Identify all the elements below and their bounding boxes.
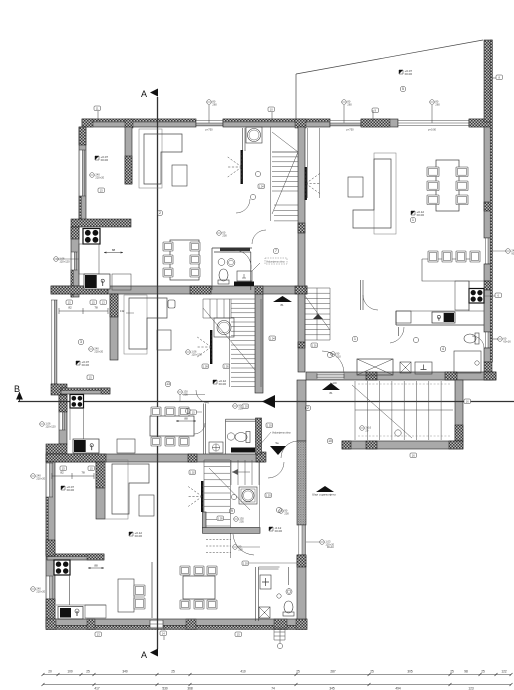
bar stools unit D [428,251,438,262]
marker bottom 3 [235,632,242,637]
stair unit D treads [305,288,330,340]
chairs dining A left [163,242,173,251]
svg-text:98: 98 [464,670,468,674]
thin wall unit D hall [361,280,364,310]
dim arrow 88 unit C [88,567,104,569]
door arc bath A [235,250,251,269]
external stair diagonal [352,385,412,438]
door arc garsonjera hall [281,441,298,458]
toilet unit D [475,333,479,344]
dim arrow 88 unit B [176,420,196,422]
svg-text:81: 81 [329,391,333,395]
toilet unit A [218,280,229,284]
stair unit A treads [272,152,298,186]
wall stair B enclosure [255,294,263,393]
svg-text:1: 1 [354,337,356,341]
svg-text:±0.00: ±0.00 [219,382,227,386]
marker top wall 6 circle [430,100,435,105]
entrance arrow garsonjera [316,486,334,492]
window left unit C lower [46,576,53,599]
svg-text:25: 25 [370,670,374,674]
coffee table unit C [139,495,154,516]
section arrow A bottom [150,649,158,657]
dim ticks bedroom B [59,308,108,314]
room number 4 [440,346,446,352]
svg-text:120+120: 120+120 [45,424,56,428]
svg-text:±0.00: ±0.00 [405,72,413,76]
sink circles unit A [218,259,225,266]
coffee table unit B [157,330,171,350]
door arc unit D bath2 [472,336,484,348]
interior label 1.09 unit B [202,364,209,369]
external stair mid landing line [355,381,453,410]
window marker unit A living [90,173,95,178]
marker window B left [40,422,45,427]
interior label unit C hall [265,493,272,498]
marker window A left [54,257,59,262]
svg-text:220+20: 220+20 [36,589,45,593]
svg-text:p+750: p+750 [346,128,354,132]
wall right exterior bottom corner [484,348,492,362]
svg-text:Vodomjerno okno: Vodomjerno okno [266,261,285,264]
wall left unit C bottom [46,599,55,628]
svg-text:88: 88 [184,417,188,421]
wall kitchen B left [59,395,67,444]
svg-text:3: 3 [80,340,82,344]
desk unit C [118,579,134,612]
counter unit B [70,408,83,440]
svg-text:74: 74 [271,687,275,690]
boiler circle unit B [214,318,234,337]
wall interior unit C [96,462,105,519]
svg-text:1: 1 [412,218,414,222]
svg-text:10: 10 [328,439,332,443]
svg-text:1.05: 1.05 [218,517,224,521]
window kitchen A [71,252,78,270]
svg-text:±0.00: ±0.00 [135,534,143,538]
svg-text:25: 25 [86,670,90,674]
svg-text:132: 132 [120,309,125,313]
window top wall right (p+0.00) [398,120,469,127]
boiler circle unit A [246,127,262,143]
room number 2 [157,210,163,216]
wall bottom hatch segs [186,619,196,630]
wall kitchen B top [61,388,110,394]
marker exit door bottom [277,643,282,648]
svg-text:530: 530 [162,687,168,690]
svg-text:A: A [141,89,147,99]
entry steps unit C [274,628,285,640]
window right wall bath D [485,332,492,348]
svg-text:Vodomjerno okno: Vodomjerno okno [272,432,291,435]
level marker terrace [399,70,403,74]
wm circle unit B hall [178,390,183,395]
door arc stair B bottom [196,390,209,403]
marker stove D [495,293,502,298]
svg-text:305: 305 [407,670,413,674]
svg-text:4: 4 [442,347,444,351]
svg-text:120+120: 120+120 [191,352,202,356]
chairs dining C top [180,566,190,575]
marker near ext stair [360,426,365,431]
svg-text:60+16: 60+16 [503,339,511,343]
window marker unit B living [89,347,94,352]
svg-text:78: 78 [94,306,98,310]
svg-text:220+20: 220+20 [95,175,104,179]
marker top wall 2 circle [207,100,212,105]
section arrow mid on line B [262,395,275,408]
stair unit A lower flight [274,205,298,221]
room number 1 [410,217,416,223]
coffee table unit A [172,165,187,186]
coffee table unit D [348,177,363,197]
svg-text:260: 260 [347,102,352,106]
dining table unit B [150,416,194,436]
external stair treads [355,381,441,440]
svg-text:±0.00: ±0.00 [417,213,425,217]
marker right wall top [496,75,503,80]
door arc unit D hall [363,295,378,310]
section arrow A top [150,89,158,97]
svg-text:260: 260 [212,102,217,106]
toilet unit B [246,432,250,443]
wall left unit C mid [46,540,55,556]
svg-text:1.09: 1.09 [203,365,209,369]
basin unit D bath [415,362,432,374]
svg-text:82: 82 [68,306,72,310]
electric boxes bedroom C [60,466,67,471]
drain circle unit C [277,594,281,598]
svg-text:123: 123 [468,687,474,690]
level marker hall B [213,380,217,384]
door arc unit A hall [252,230,266,244]
wall right chk edge strip [490,40,492,362]
svg-text:1.02: 1.02 [190,471,196,475]
kitchen D partition [396,311,484,325]
marker top wall 1 [94,106,101,111]
svg-text:210: 210 [336,354,341,358]
sink unit D [432,312,455,323]
wm circle stair C [234,517,239,522]
room number 3 [78,339,84,345]
basin unit C [260,575,271,589]
window left wall unit B tall [51,300,58,384]
dishwasher unit B [117,439,135,453]
entrance arrow unit D door [322,383,340,390]
wall bottom exterior unit D [306,372,496,380]
wall top exterior right part [469,119,492,127]
wall right exterior upper (terrace) [484,40,492,122]
room number 5 terrace [400,86,406,92]
wall right unit C lower [297,555,306,619]
door arc bath D [390,327,404,343]
stair unit A diagonal [272,132,298,214]
marker bottom 2 [160,631,167,636]
vanity black unit B [231,448,255,453]
marker bottom 1 [95,632,102,637]
stair unit D up arrow [313,314,323,319]
svg-text:20: 20 [48,670,52,674]
marker window C right [320,540,325,545]
svg-text:25: 25 [171,670,175,674]
svg-text:2: 2 [159,211,161,215]
wardrobe X unit D [357,359,393,375]
svg-text:±0.00: ±0.00 [101,158,109,162]
counter C right piece [85,605,106,618]
wm circle unit D hall [331,352,336,357]
stove unit D [469,289,484,304]
kitchen D base counter line [396,310,484,312]
room number 10 [327,438,333,444]
sink unit C [58,607,83,620]
toilet unit C [283,612,294,616]
fireplace unit D [305,167,307,200]
vodomjerno okno dashed box [265,258,287,264]
chairs dining D right [456,167,468,177]
svg-text:410: 410 [240,670,246,674]
svg-text:1.03: 1.03 [243,562,249,566]
door gap unit D entry [317,374,344,379]
stove unit B [70,395,84,409]
svg-text:287: 287 [330,670,336,674]
wall top exterior between windows [223,119,330,127]
room number 1 lower [352,336,358,342]
fireplace unit A [241,150,243,184]
svg-text:1.03: 1.03 [266,494,272,498]
corridor lines unit D [308,128,320,198]
wm circle bath A [217,231,222,236]
section line A vertical [157,97,159,649]
svg-text:p+750: p+750 [205,128,213,132]
svg-text:±0.00: ±0.00 [275,529,283,533]
door arc unit C entry [268,462,284,478]
wall top exterior unit D [361,119,398,127]
stair unit C arrow [209,468,250,510]
svg-text:p+100: p+100 [330,382,337,385]
stair unit D diagonal [305,296,330,330]
svg-text:220+20: 220+20 [94,349,103,353]
door arc stair A [236,199,250,213]
sink unit A [84,274,110,289]
dining table unit C [183,576,215,599]
window top wall left (p+750) [196,120,223,127]
svg-text:2: 2 [307,406,309,410]
entrance arrow stair B top [273,296,292,302]
svg-text:1.03: 1.03 [243,405,249,409]
svg-text:90+40: 90+40 [327,546,334,549]
wall kitchen A step horizontal [71,219,131,227]
level marker garsonjera entry [269,527,273,531]
wm circle unit B bath [233,404,238,409]
counter unit C left [56,575,106,605]
chairs desk C [134,585,145,596]
wm circle garsonjera [279,509,284,514]
wall external stair right [455,380,463,441]
window right wall unit C [298,525,306,555]
svg-text:417: 417 [94,687,100,690]
window right wall dining D [485,238,492,264]
marker top wall 5 [372,108,379,113]
svg-text:205: 205 [239,519,244,523]
room number 13 [165,381,171,387]
section arrow B left [16,392,23,400]
svg-text:220+20: 220+20 [36,476,45,480]
dimension line 1 [43,674,511,676]
fridge unit D [396,311,411,323]
wall top exterior unit A [82,119,196,127]
sofa L unit C [105,460,128,519]
chairs dining B bottom [151,437,161,446]
kitchen C partition line [151,562,153,618]
lamp marker unit B [168,300,175,308]
svg-text:5: 5 [402,87,404,91]
wall external stair bottom [342,441,463,449]
door arc unit C stair [233,534,254,555]
bath A walls [212,248,252,290]
svg-text:200: 200 [284,511,289,515]
marker window C left 1 [31,474,36,479]
fireplace unit C [201,481,203,512]
svg-text:A: A [141,650,147,660]
terrace edge sloped line [296,40,483,74]
marker window C left 2 [31,587,36,592]
level marker unit C [61,486,65,490]
washer black bar unit A [234,282,254,287]
svg-text:200: 200 [222,233,227,237]
wall divider unit B / unit C [46,454,265,462]
stair unit B diagonal [203,308,255,370]
window kitchen B [59,412,66,430]
level marker unit B [76,361,80,365]
svg-text:100: 100 [67,670,73,674]
fireplace unit B [210,330,212,364]
chairs dining C bottom [180,600,190,609]
shower unit C [239,487,257,504]
sofa L unit A [139,129,162,188]
svg-text:88: 88 [112,248,116,252]
sink unit B [73,439,99,453]
wall left exterior unit C [46,462,55,628]
level marker unit A [95,156,99,160]
interior label 1.01 unit B stair [311,343,318,348]
window left unit C upper [46,463,53,497]
dim ticks bedroom C [52,473,94,479]
wall divider unit B / unit D vertical [298,294,305,372]
svg-text:25: 25 [450,670,454,674]
chairs dining A right [190,242,200,251]
stair unit B treads [231,299,255,386]
svg-text:88: 88 [94,564,98,568]
sofa L unit D [374,153,396,234]
svg-text:1.05: 1.05 [224,365,230,369]
svg-text:345: 345 [329,687,335,690]
dim arrow 88 unit A [104,252,123,254]
shower circle unit C [286,589,292,595]
room number 9 [229,508,235,514]
bath B walls [204,404,256,455]
marker top wall 4 circle [342,100,347,105]
wall bottom exterior unit C [46,619,307,626]
room number 2 on line B [305,405,311,411]
svg-text:±0.00: ±0.00 [67,488,75,492]
svg-text:122: 122 [501,670,507,674]
shelf unit D bath [454,351,481,373]
wall interior unit A [125,127,132,184]
svg-text:±0.00: ±0.00 [82,363,90,367]
washing machine unit A [237,271,252,281]
dining table unit D [436,160,459,211]
wall kitchen C top [47,554,104,560]
wall kitchen A left [71,227,79,297]
svg-text:p+0.00: p+0.00 [428,128,437,132]
wall interior unit B [110,294,118,360]
door arc unit D entry [322,351,344,373]
door arc unit B bath [194,423,205,434]
chairs dining D left [427,167,439,177]
marker window dining D [506,249,511,254]
svg-text:494: 494 [395,687,401,690]
drain circle unit B [227,433,234,440]
svg-text:1.04: 1.04 [270,337,276,341]
svg-text:120+120: 120+120 [59,259,70,263]
svg-text:5a: 5a [275,441,279,445]
stair unit A side lines [271,127,299,221]
interior circles misc [231,494,236,499]
stove unit A [83,229,100,245]
svg-text:78: 78 [81,471,85,475]
interior label 1.04 stair B [269,336,276,341]
terrace left edge line [295,74,297,119]
svg-text:25: 25 [296,670,300,674]
door bottom wall unit C (p+100) [150,620,163,628]
svg-text:368: 368 [187,687,193,690]
wall left exterior unit A [79,127,86,222]
external stair dashed rails [358,384,450,436]
section line B horizontal [18,401,514,403]
svg-text:81: 81 [280,303,284,307]
stair C lower wall band [203,512,207,528]
window left wall unit A [79,150,86,196]
room number 7 [273,248,279,254]
sofa L unit B [124,295,147,354]
entrance arrow unit C [270,446,286,455]
svg-text:13: 13 [166,382,170,386]
marker B line right [464,399,471,404]
wall left unit B bottom corner [51,384,67,395]
stove unit C [54,560,70,575]
bath C walls [256,567,280,621]
corridor wall unit A entry [243,128,245,151]
shower box X unit C [259,607,270,618]
wall right exterior main [484,127,492,238]
wall divider unit A / unit D vertical [298,127,305,286]
svg-text:82: 82 [60,471,64,475]
marker top wall 3 [268,107,275,112]
svg-text:340: 340 [122,670,128,674]
svg-text:7: 7 [275,249,277,253]
counter box left of stove D [455,281,469,310]
basin unit B [209,442,223,453]
window top wall mid (p+750) [330,120,361,127]
window marker stair hall [186,350,191,355]
counter A right piece [112,274,131,290]
wall right unit C exterior [297,380,306,441]
stair unit C treads [204,460,230,526]
dimension line 2 [43,684,511,686]
dining table unit A [170,240,199,280]
wall kitchen B corner [46,444,67,454]
svg-text:Ulaz u garsonjeru: Ulaz u garsonjeru [312,493,336,497]
